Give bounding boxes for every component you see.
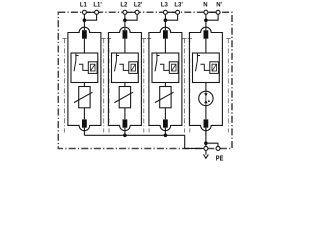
- svg-text:L3': L3': [174, 2, 183, 8]
- svg-text:PE: PE: [216, 154, 224, 163]
- svg-text:N: N: [203, 2, 207, 8]
- svg-text:N': N': [216, 2, 222, 8]
- svg-text:L2: L2: [120, 2, 128, 8]
- svg-text:L1': L1': [93, 2, 102, 8]
- svg-text:L1: L1: [80, 2, 88, 8]
- svg-text:L3: L3: [161, 2, 169, 8]
- svg-text:L2': L2': [134, 2, 143, 8]
